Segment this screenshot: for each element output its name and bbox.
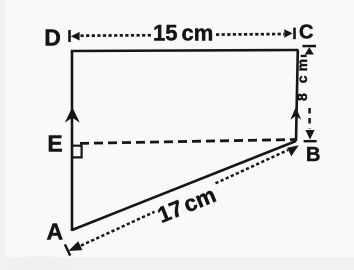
side AB — [72, 141, 296, 230]
17 cm dimension: B-end arrowhead — [287, 145, 299, 156]
side CB — [296, 50, 298, 141]
scan shading left edge — [0, 0, 5, 270]
8 cm dimension: top arrowhead (up) — [305, 47, 314, 54]
svg-text:8cm: 8cm — [294, 55, 310, 101]
15 cm dimension: left terminal bar — [68, 30, 71, 42]
8 cm dimension: lower dashed line — [308, 108, 311, 129]
15 cm dimension: left arrowhead — [71, 32, 80, 41]
right-angle mark at E — [73, 146, 82, 158]
8 cm dimension: bottom arrowhead (down) — [305, 130, 314, 140]
parallel mark arrow on CB — [290, 107, 301, 120]
svg-text:A: A — [46, 218, 63, 244]
svg-text:B: B — [306, 144, 320, 166]
side DA — [71, 50, 74, 231]
15 cm dimension: right dashed line — [216, 33, 284, 36]
svg-text:15cm: 15cm — [153, 21, 213, 46]
scan smudge bottom-left — [10, 256, 70, 270]
17 cm dimension: A-end arrowhead — [69, 241, 83, 251]
scan shading bottom band — [0, 257, 354, 270]
side DC — [71, 50, 299, 51]
svg-text:E: E — [47, 130, 62, 156]
svg-text:C: C — [299, 21, 313, 43]
15 cm dimension: left dashed line — [81, 34, 152, 37]
dashed segment EB — [80, 140, 295, 144]
17 cm label (rotated) — [154, 182, 220, 228]
8 cm dimension: top terminal bar — [302, 45, 316, 48]
17 cm dimension: lower-left dashed line — [81, 212, 155, 246]
8 cm dimension: small dash below hyphen — [301, 55, 307, 57]
svg-text:D: D — [44, 24, 61, 50]
15 cm dimension: right arrowhead — [284, 29, 292, 38]
15 cm dimension: right terminal bar — [293, 28, 296, 40]
8 cm dimension: bottom terminal bar — [304, 140, 317, 142]
parallel mark arrow on DA — [65, 107, 80, 123]
17 cm dimension: A-end terminal bar — [65, 244, 70, 255]
17 cm dimension: upper-right dashed line — [216, 150, 289, 183]
